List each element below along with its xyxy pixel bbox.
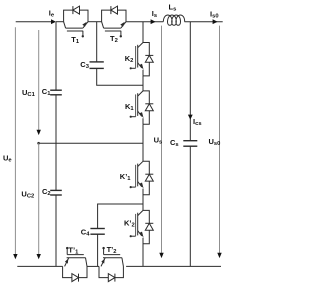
wire left bus lower (55, 195, 57, 266)
arrow Is on top rail (151, 19, 156, 24)
capacitor C4 (90, 228, 104, 230)
wire bottom rail right (126, 265, 221, 267)
wire Cs branch lower (189, 146, 191, 266)
arrow Ie on top rail (51, 19, 56, 24)
transistor T'2 (99, 247, 123, 282)
transistor T2 (102, 6, 126, 37)
wire top rail between T1 and T2 (88, 21, 102, 23)
wire leg top (142, 22, 144, 43)
transistor T1 (64, 6, 88, 37)
wire top rail after inductor to right end (185, 21, 223, 23)
wire leg K2-K1 (142, 76, 144, 91)
wire leg K'2-bottom (142, 243, 144, 266)
switch K'2 (130, 210, 154, 243)
arrowhead Ue (13, 254, 17, 259)
switch K'1 (130, 161, 154, 194)
wire top rail T1-T2 segment (56, 21, 64, 23)
transistor T'1 (63, 247, 87, 282)
arrow Ics on Cs branch (188, 115, 193, 120)
wire midpoint line (39, 142, 143, 144)
wire bottom rail middle (87, 265, 99, 267)
measure arrow Us0 line (219, 26, 221, 254)
switch K1 (130, 91, 154, 124)
wire C4 horizontal from leg (98, 204, 143, 229)
inductor Ls (163, 15, 184, 25)
measure arrow Ue line (14, 27, 16, 254)
wire leg K'1-K'2 (142, 194, 144, 210)
wire leg K1-midpoint (142, 124, 144, 161)
wire top rail after T2 to inductor (126, 21, 163, 23)
wire C3 drop from T1-T2 midpoint (96, 22, 98, 62)
capacitor C1 (50, 89, 62, 91)
wire left bus upper (C1 branch) (55, 22, 57, 91)
wire C4 to bottom rail (97, 234, 99, 266)
arrowhead Us0 (217, 253, 221, 258)
arrowhead Us (159, 253, 163, 258)
node midpoint dot (37, 142, 40, 145)
capacitor C2 (50, 189, 62, 191)
arrowhead Uc2 (37, 254, 41, 259)
wire bottom rail left (17, 265, 62, 267)
arrow Is0 on top rail (213, 19, 218, 24)
capacitor C3 (90, 61, 104, 63)
measure arrow Uc2 line (38, 143, 40, 254)
wire top rail left segment (16, 21, 52, 23)
measure arrow Us line (161, 26, 163, 254)
switch K2 (130, 43, 154, 76)
wire C3 to leg (97, 68, 143, 85)
wire Cs branch upper (189, 22, 191, 141)
capacitor Cs (183, 140, 197, 142)
measure arrow Uc1 line (38, 30, 40, 130)
arrowhead Uc1 (37, 130, 41, 135)
wire left bus middle (55, 95, 57, 191)
